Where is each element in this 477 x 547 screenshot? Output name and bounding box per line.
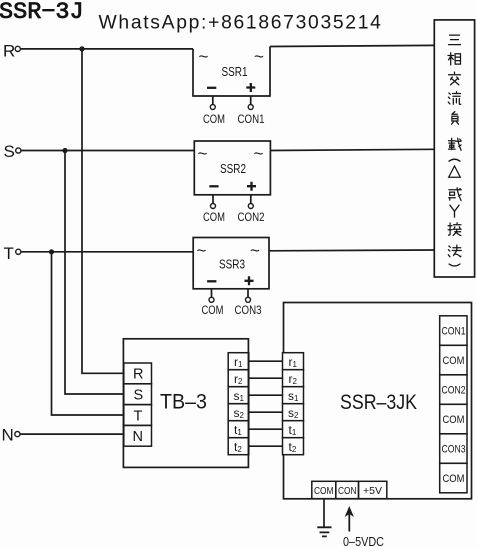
TB-3 terminal S [124, 384, 152, 405]
svg-text:COM: COM [314, 485, 334, 497]
char 或 [449, 188, 462, 201]
svg-text:COM: COM [443, 414, 465, 426]
char 相 [448, 53, 461, 65]
svg-text:0–5VDC: 0–5VDC [343, 535, 384, 547]
svg-text:COM: COM [203, 114, 225, 126]
svg-text:~: ~ [197, 241, 207, 260]
SSR-3JK terminal CON1 [440, 316, 467, 346]
svg-text:r2: r2 [234, 372, 243, 386]
svg-text:COM: COM [203, 212, 225, 224]
SSR3 CON3 stub [247, 289, 249, 298]
svg-text:t1: t1 [234, 423, 242, 437]
TB-3 terminal t2 [228, 438, 249, 455]
svg-text:SSR2: SSR2 [220, 162, 246, 176]
svg-text:SSR3: SSR3 [219, 258, 245, 272]
TB-3 terminal r2 [228, 370, 249, 387]
char 三 [449, 35, 461, 45]
junction S [62, 148, 67, 153]
svg-text:~: ~ [254, 144, 264, 163]
SSR-3JK terminal r2 [283, 370, 304, 387]
svg-text:~: ~ [254, 47, 264, 66]
SSR-3JK bottom terminal CON [336, 481, 359, 498]
wire r1 [249, 360, 283, 362]
char 交 [449, 72, 461, 85]
svg-text:CON3: CON3 [235, 305, 262, 317]
wire T vertical drop [52, 252, 124, 415]
load label: vertical Chinese text 三相交流负载(Δ或Y接法) [448, 35, 461, 266]
svg-text:S: S [4, 142, 15, 161]
TB-3 box [123, 339, 248, 468]
svg-text:WhatsApp:+8618673035214: WhatsApp:+8618673035214 [99, 13, 383, 34]
SSR-3JK terminal CON3 [440, 434, 467, 464]
svg-text:SSR−3J: SSR−3J [0, 0, 84, 26]
TB-3 terminal s2 [228, 404, 249, 421]
svg-text:R: R [133, 367, 143, 383]
SSR1 minus [207, 87, 216, 89]
SSR3 minus [207, 280, 216, 282]
TB-3 terminal T [124, 405, 152, 426]
char 载 [449, 138, 462, 150]
svg-text:CON: CON [338, 485, 357, 497]
terminal circle R [15, 46, 20, 51]
svg-text:N: N [133, 429, 143, 445]
SSR3 CON3 circle [246, 297, 251, 302]
SSR-3JK bottom terminal +5V [359, 481, 387, 498]
svg-text:CON1: CON1 [442, 326, 466, 338]
svg-text:COM: COM [202, 305, 224, 317]
terminal circle N [15, 432, 20, 437]
load box (three-phase AC load) [434, 20, 474, 277]
TB-3 terminal r1 [228, 353, 249, 370]
wire t1 [249, 428, 283, 430]
svg-text:+5V: +5V [363, 485, 382, 497]
SSR1 box (open top) [193, 47, 270, 97]
wire SSR3 to load [269, 249, 434, 252]
svg-text:SSR–3JK: SSR–3JK [340, 391, 417, 414]
svg-text:T: T [134, 408, 143, 424]
svg-text:COM: COM [443, 355, 465, 367]
wire S horizontal [21, 150, 194, 152]
SSR2 minus [209, 185, 218, 187]
SSR3 plus [245, 276, 254, 285]
wire R horizontal [21, 48, 193, 50]
wire T horizontal [21, 251, 193, 253]
svg-text:COM: COM [443, 473, 465, 485]
SSR-3JK terminal COM b [440, 404, 467, 434]
SSR1 COM stub [212, 96, 214, 105]
svg-text:CON2: CON2 [238, 212, 265, 224]
char open paren (rotated) [449, 159, 460, 161]
svg-text:CON1: CON1 [238, 114, 265, 126]
SSR-3JK terminal COM c [440, 463, 467, 493]
SSR2 CON2 circle [248, 204, 253, 209]
TB-3 terminal s1 [228, 387, 249, 404]
svg-text:CON3: CON3 [442, 444, 466, 456]
wire SSR2 to load [270, 149, 434, 150]
SSR2 box [194, 141, 270, 195]
SSR-3JK terminal CON2 [440, 375, 467, 405]
SSR1 COM circle [210, 105, 215, 110]
SSR1 CON1 stub [250, 96, 252, 105]
svg-text:CON2: CON2 [442, 385, 466, 397]
svg-text:R: R [3, 42, 15, 61]
wire R vertical drop [82, 49, 123, 373]
svg-text:~: ~ [198, 144, 208, 163]
junction T [49, 249, 54, 254]
terminal circle S [16, 148, 21, 153]
TB-3 terminal N [124, 425, 152, 446]
SSR2 plus [247, 182, 256, 191]
terminal circle T [16, 249, 21, 254]
char close paren (rotated) [449, 264, 460, 266]
SSR-3JK terminal s1 [283, 387, 304, 404]
ground wire [323, 499, 325, 527]
char 负 [452, 112, 459, 125]
svg-text:S: S [134, 388, 144, 404]
svg-text:r1: r1 [234, 355, 243, 369]
SSR2 COM stub [212, 195, 214, 204]
svg-text:t2: t2 [234, 440, 242, 454]
SSR-3JK terminal r1 [283, 353, 304, 370]
svg-text:T: T [4, 244, 14, 263]
SSR-3JK terminal t2 [283, 438, 304, 455]
svg-text:TB–3: TB–3 [160, 391, 207, 414]
SSR2 CON2 stub [250, 195, 252, 204]
svg-text:~: ~ [199, 47, 209, 66]
0-5VDC arrow [348, 512, 350, 532]
SSR1 CON1 circle [248, 105, 253, 110]
wire r2 [249, 377, 283, 379]
TB-3 terminal t1 [228, 421, 249, 438]
SSR-3JK box [284, 303, 472, 499]
svg-text:~: ~ [250, 241, 260, 260]
char 流 [448, 92, 460, 105]
SSR3 COM stub [211, 289, 213, 298]
char Δ [449, 166, 461, 177]
svg-text:N: N [2, 426, 14, 445]
SSR-3JK terminal COM a [440, 345, 467, 375]
SSR3 box [193, 238, 269, 289]
svg-text:s1: s1 [234, 389, 245, 403]
ground symbol [317, 527, 331, 536]
wire S vertical drop [65, 151, 123, 395]
wire t2 [249, 445, 283, 447]
svg-text:SSR1: SSR1 [222, 65, 248, 79]
SSR3 COM circle [209, 297, 214, 302]
SSR2 COM circle [211, 204, 216, 209]
svg-text:s2: s2 [234, 406, 245, 420]
char 接 [448, 223, 461, 236]
TB-3 terminal R [124, 363, 152, 384]
char 法 [448, 245, 461, 257]
junction R [79, 46, 84, 51]
wire s2 [249, 411, 283, 413]
SSR-3JK terminal t1 [283, 421, 304, 438]
wire s1 [249, 394, 283, 396]
wire N horizontal [20, 433, 123, 435]
char Y [450, 205, 459, 217]
SSR-3JK terminal s2 [283, 404, 304, 421]
SSR-3JK bottom terminal COM [312, 481, 336, 498]
wire SSR1 to load [270, 45, 434, 46]
SSR1 plus [246, 83, 255, 92]
